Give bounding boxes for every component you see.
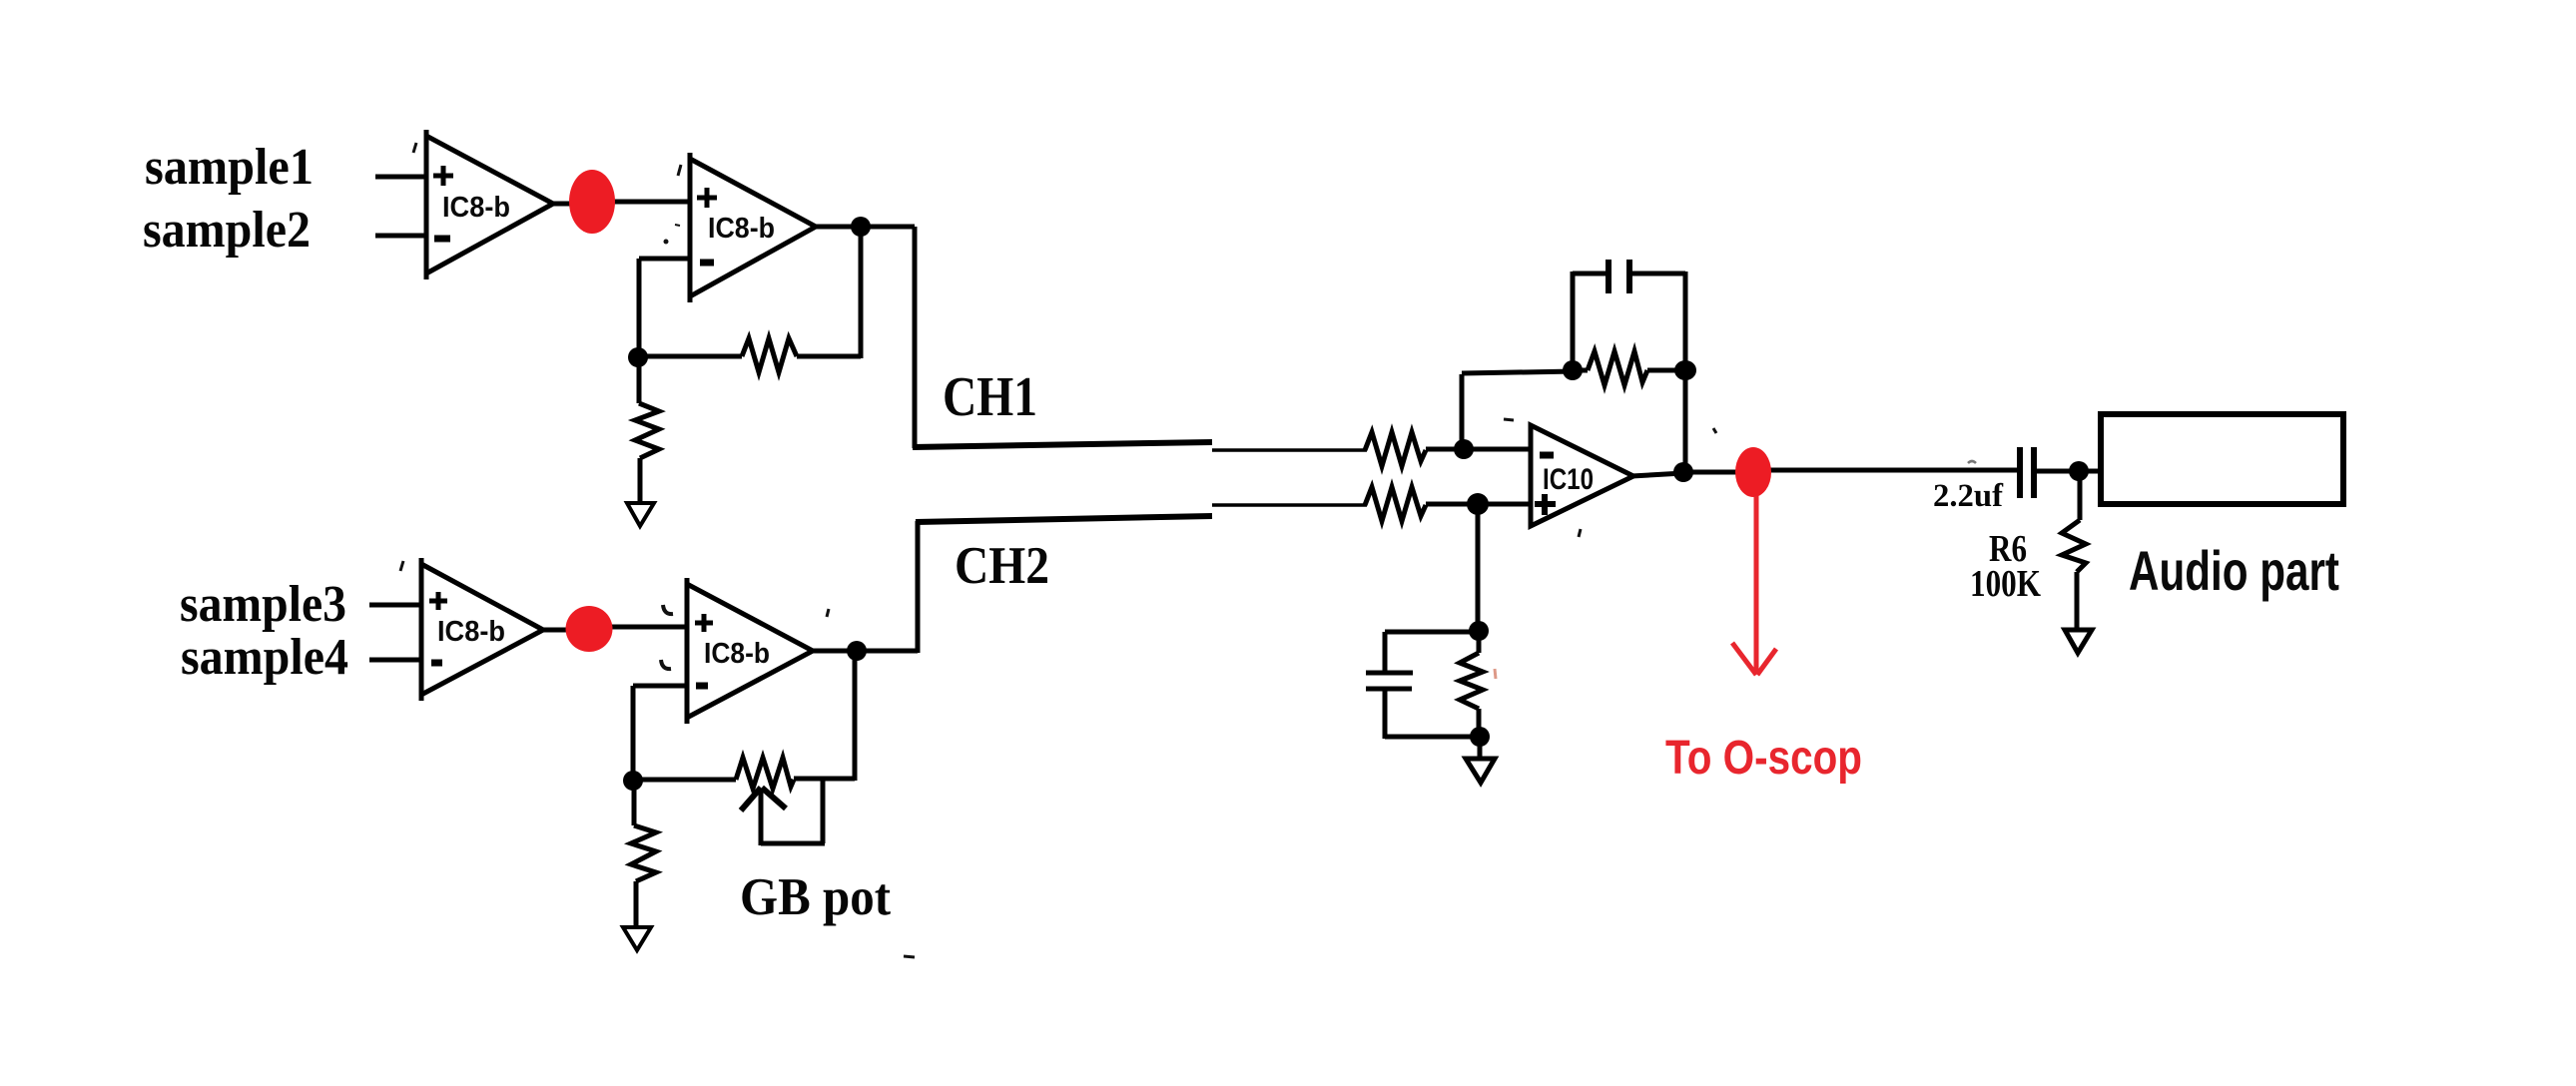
svg-text:GB pot: GB pot bbox=[740, 868, 891, 926]
svg-text:IC8-b: IC8-b bbox=[708, 213, 775, 245]
svg-text:sample1: sample1 bbox=[145, 139, 314, 196]
svg-text:sample2: sample2 bbox=[143, 202, 311, 259]
svg-text:CH2: CH2 bbox=[955, 537, 1049, 595]
svg-text:To O-scop: To O-scop bbox=[1665, 732, 1862, 785]
svg-text:IC8-b: IC8-b bbox=[437, 616, 505, 648]
svg-text:IC8-b: IC8-b bbox=[704, 638, 770, 670]
svg-text:sample4: sample4 bbox=[181, 629, 348, 686]
svg-text:CH1: CH1 bbox=[943, 366, 1037, 428]
svg-text:IC10: IC10 bbox=[1543, 463, 1594, 496]
svg-text:sample3: sample3 bbox=[180, 576, 346, 633]
svg-text:Audio part: Audio part bbox=[2129, 539, 2339, 602]
svg-text:IC8-b: IC8-b bbox=[442, 192, 510, 224]
svg-text:2.2uf: 2.2uf bbox=[1933, 478, 2004, 514]
svg-text:100K: 100K bbox=[1970, 563, 2041, 605]
